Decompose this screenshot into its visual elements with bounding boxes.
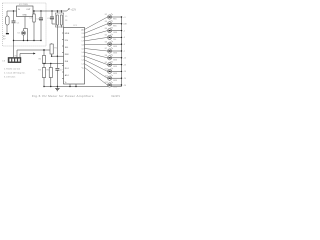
- svg-text:GND: GND: [22, 14, 27, 16]
- svg-text:L1: L1: [82, 64, 84, 66]
- resistor R2: [42, 56, 45, 64]
- capacitor C2: [33, 11, 35, 14]
- svg-text:-26: -26: [123, 85, 126, 87]
- resistor R5 bleeder line: [27, 29, 29, 41]
- svg-text:MDE: MDE: [65, 33, 70, 35]
- node C3 bus: [40, 40, 41, 41]
- node C3 rail: [40, 10, 41, 11]
- svg-text:-3: -3: [123, 37, 125, 39]
- svg-text:ADJ: ADJ: [65, 74, 69, 77]
- ground bus of supply: [14, 40, 42, 42]
- wire into capacitor block: [57, 11, 61, 15]
- wire to indicator branch: [24, 28, 28, 30]
- node C6 rail: [61, 10, 62, 11]
- wire R1 to IC: [52, 54, 64, 56]
- junction node on input rail: [13, 10, 14, 11]
- wire battery negative lead: [6, 25, 8, 33]
- IC1 left pin labels: [65, 33, 70, 84]
- wire regulator output rail: [33, 10, 67, 12]
- svg-text:RLO: RLO: [65, 68, 70, 70]
- svg-text:-13: -13: [123, 64, 126, 66]
- battery terminal mark: [6, 33, 9, 34]
- wire connector return stub: [20, 54, 34, 58]
- svg-text:GRN: GRN: [113, 66, 118, 68]
- svg-text:D5: D5: [105, 35, 107, 37]
- node R4 top: [50, 63, 51, 64]
- capacitor block C5 C6: [55, 13, 64, 27]
- svg-text:L2: L2: [82, 60, 84, 62]
- fan wires IC1 to LEDs: [85, 17, 108, 85]
- node signal to divider: [43, 49, 45, 51]
- LED D1 power indicator: [23, 29, 25, 31]
- svg-text:GRN: GRN: [113, 87, 118, 89]
- svg-text:SIG: SIG: [65, 47, 69, 49]
- svg-text:+3: +3: [123, 17, 125, 19]
- svg-text:D10: D10: [105, 69, 108, 71]
- svg-text:-10: -10: [123, 58, 126, 60]
- svg-text:GRN: GRN: [113, 53, 118, 55]
- LED anode bus: [121, 17, 123, 87]
- svg-text:L10: L10: [81, 29, 84, 31]
- svg-text:C5: C5: [65, 16, 67, 18]
- svg-text:GRN: GRN: [113, 46, 118, 48]
- svg-text:D8: D8: [105, 55, 107, 57]
- svg-text:D6: D6: [105, 41, 107, 43]
- IC1 bottom pins to bus: [70, 84, 76, 87]
- battery B1: [6, 16, 9, 25]
- svg-text:-20: -20: [123, 78, 126, 80]
- svg-text:L9: L9: [82, 33, 84, 35]
- svg-text:L4: L4: [82, 52, 84, 54]
- node C5 rail: [57, 10, 58, 11]
- power supply dashed enclosure: [3, 3, 47, 46]
- ground: [56, 87, 58, 89]
- wire regulator ground pin: [24, 17, 26, 29]
- svg-text:-7: -7: [123, 51, 125, 53]
- svg-text:L8: L8: [82, 37, 84, 39]
- node R2 bottom: [43, 63, 44, 64]
- node C2 bus: [33, 40, 34, 41]
- capacitor C3: [40, 11, 42, 18]
- node R5 bus: [27, 40, 28, 41]
- svg-text:C6: C6: [65, 20, 67, 22]
- capacitor C7: [55, 68, 59, 70]
- node C2 rail: [33, 10, 34, 11]
- loudspeaker connector LS: [8, 57, 21, 62]
- wire battery to regulator input: [7, 11, 17, 16]
- svg-text:L3: L3: [82, 56, 84, 58]
- node LED bus: [23, 40, 24, 41]
- resistor R4: [50, 64, 52, 68]
- svg-text:1. R1,R2 see text: 1. R1,R2 see text: [4, 68, 20, 71]
- svg-text:D4: D4: [105, 28, 107, 30]
- wire C5 to lower rail: [56, 25, 58, 68]
- svg-text:V-: V-: [65, 82, 67, 84]
- wire node to R2: [43, 50, 45, 56]
- svg-text:D11: D11: [105, 75, 108, 77]
- svg-text:D3: D3: [105, 21, 107, 23]
- capacitor C1: [13, 11, 15, 21]
- IC1 right pin labels: [81, 29, 84, 69]
- svg-text:L6: L6: [82, 45, 84, 47]
- svg-text:-5: -5: [123, 44, 125, 46]
- LED column: [105, 13, 128, 88]
- svg-text:GRN: GRN: [113, 80, 118, 82]
- svg-text:3. LS 8 ohm: 3. LS 8 ohm: [4, 77, 15, 79]
- bottom ground bus: [44, 86, 122, 88]
- node C4 rail: [51, 10, 52, 11]
- svg-text:GRN: GRN: [113, 59, 118, 61]
- svg-text:2. C1-C4 16V wkg min.: 2. C1-C4 16V wkg min.: [4, 73, 26, 75]
- node R1 wire: [51, 56, 52, 57]
- svg-text:YEL: YEL: [113, 39, 116, 41]
- svg-text:ORN: ORN: [113, 32, 118, 34]
- svg-text:D7: D7: [105, 48, 107, 50]
- +12V arrow tail: [67, 8, 70, 11]
- svg-text:-1: -1: [123, 30, 125, 32]
- svg-text:V+: V+: [82, 67, 84, 69]
- regulator IC2: [17, 6, 34, 17]
- capacitor C4: [51, 11, 53, 17]
- resistor R3: [43, 64, 45, 68]
- svg-text:L5: L5: [82, 48, 84, 50]
- svg-text:D9: D9: [105, 62, 107, 64]
- svg-text:RHI: RHI: [65, 61, 69, 63]
- op-amp driver IC1: [64, 28, 85, 85]
- arrow on return stub: [33, 53, 35, 55]
- svg-text:-16: -16: [123, 71, 126, 73]
- wire connector to signal line: [17, 50, 50, 57]
- resistor R1: [51, 42, 53, 45]
- svg-text:D2: D2: [105, 14, 107, 16]
- svg-text:D12: D12: [105, 82, 108, 84]
- svg-text:No.971: No.971: [112, 94, 121, 98]
- svg-text:L7: L7: [82, 41, 84, 43]
- svg-text:+12V: +12V: [70, 8, 76, 11]
- IC1 left pin stubs: [62, 33, 64, 79]
- node C5 crossing: [57, 56, 58, 57]
- wire R2 to IC: [44, 63, 64, 65]
- wire C6 to IC supply pin: [60, 25, 62, 28]
- node battery bus: [13, 40, 14, 41]
- svg-text:Fig.6 VU Meter for Power Ampli: Fig.6 VU Meter for Power Amplifiers: [32, 94, 94, 98]
- svg-text:GRN: GRN: [113, 73, 118, 75]
